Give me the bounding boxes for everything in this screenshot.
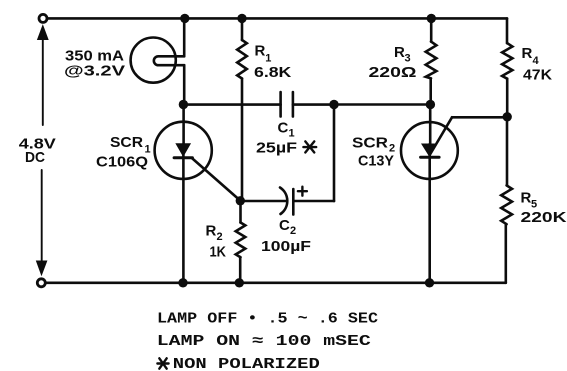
4.8V DC source up arrow xyxy=(42,37,44,125)
SCR1 anode line and cathode line xyxy=(182,105,185,145)
terminal top-left (open circle) xyxy=(39,14,47,22)
node: R4/R5/gate junction xyxy=(503,112,512,121)
svg-text:6.8K: 6.8K xyxy=(254,64,291,81)
wire R3 top lead xyxy=(430,18,433,41)
wire lamp lower lead to SCR1 anode xyxy=(183,65,186,104)
SCR2 anode/cathode line xyxy=(428,105,431,283)
svg-text:@3.2V: @3.2V xyxy=(64,63,125,80)
svg-text:C13Y: C13Y xyxy=(358,153,394,170)
wire C branch vertical (C1 node down to C2 right wire) xyxy=(333,105,336,202)
resistor R2 1K xyxy=(236,223,246,258)
svg-text:NON POLARIZED: NON POLARIZED xyxy=(173,356,320,371)
svg-text:2: 2 xyxy=(217,231,223,243)
SCR2 C13Y body circle xyxy=(401,122,458,179)
resistor R3 220ohm xyxy=(426,42,437,79)
node: R2 / bottom rail junction xyxy=(235,278,244,287)
node: middle rail / R3-SCR2 junction xyxy=(426,100,435,109)
SCR1 C106Q body circle xyxy=(155,122,212,179)
wire R5 bottom to bottom rail xyxy=(504,224,507,283)
svg-text:1: 1 xyxy=(289,128,295,140)
svg-text:47K: 47K xyxy=(523,67,552,84)
node: top rail / R1 junction xyxy=(237,14,246,23)
SCR2 cathode bar xyxy=(421,156,440,159)
SCR1 gate wire to node xyxy=(192,158,241,201)
4.8V DC source down arrow xyxy=(41,170,43,262)
wire right vertical upper (rail corner to R4) xyxy=(506,18,509,43)
wire top rail xyxy=(47,17,507,20)
node: SCR1 gate / R1-R2 / C2 junction xyxy=(236,196,245,205)
svg-text:DC: DC xyxy=(25,149,45,166)
node: SCR2 cathode / bottom rail junction xyxy=(425,278,434,287)
wire bottom rail xyxy=(46,281,506,284)
node: SCR1 cathode / bottom rail junction xyxy=(178,278,187,287)
capacitor C1 plates xyxy=(279,92,282,117)
node: top rail / lamp branch junction xyxy=(180,14,189,23)
svg-text:C: C xyxy=(278,120,289,137)
svg-text:4: 4 xyxy=(533,55,540,67)
svg-text:SCR: SCR xyxy=(352,135,388,152)
wire R3 bottom to SCR2 anode xyxy=(429,78,432,104)
wire middle rail left (to C1 left plate) xyxy=(183,103,280,106)
svg-text:100µF: 100µF xyxy=(261,238,311,255)
svg-text:R: R xyxy=(522,45,533,62)
wire C2 right lead xyxy=(293,200,334,203)
node: SCR1 anode / C1 wire junction xyxy=(179,100,188,109)
svg-text:R: R xyxy=(521,190,532,207)
terminal bottom-left (open circle) xyxy=(37,279,45,287)
wire lamp branch upper lead xyxy=(183,18,186,56)
svg-text:LAMP ON ≈ 100 mSEC: LAMP ON ≈ 100 mSEC xyxy=(157,333,371,350)
wire gate node down to R5 xyxy=(506,117,509,186)
resistor R1 6.8K xyxy=(237,40,247,79)
C2 polarity + sign xyxy=(298,187,307,196)
capacitor C2 straight plate xyxy=(292,189,295,215)
wire middle rail right (C1 right plate to node) xyxy=(293,103,334,106)
svg-text:R: R xyxy=(255,43,266,60)
wire R2 bottom lead xyxy=(239,257,242,283)
SCR2 gate wire horizontal to divider node xyxy=(452,116,507,119)
SCR1 cathode bar xyxy=(174,156,192,159)
svg-text:R: R xyxy=(394,44,405,61)
svg-text:C106Q: C106Q xyxy=(96,154,148,171)
wire C2 left lead to R1/R2 node xyxy=(240,200,286,203)
SCR2 gate wire diagonal xyxy=(430,117,452,155)
svg-text:LAMP OFF • .5 ~ .6 SEC: LAMP OFF • .5 ~ .6 SEC xyxy=(157,310,378,327)
svg-text:220Ω: 220Ω xyxy=(369,64,417,81)
svg-text:25µF: 25µF xyxy=(256,140,297,157)
node: top rail / R3 junction xyxy=(427,14,436,23)
SCR1 triangle (anode-cathode diode) xyxy=(176,144,190,156)
wire R1 bottom to node then down to R2 xyxy=(241,79,243,223)
svg-text:1: 1 xyxy=(265,53,271,65)
svg-text:R: R xyxy=(206,223,217,240)
svg-text:1K: 1K xyxy=(210,244,227,261)
node: C1/C2 right junction xyxy=(329,100,338,109)
resistor R5 220K xyxy=(501,185,512,224)
wire R1 top lead xyxy=(241,18,244,40)
note: non polarized asterisk xyxy=(157,358,168,368)
resistor R4 47K xyxy=(502,43,512,79)
svg-text:3: 3 xyxy=(405,53,411,65)
non-polarized asterisk mark xyxy=(303,141,316,152)
svg-text:2: 2 xyxy=(290,225,296,237)
lamp DS1 (350 mA @3.2V) xyxy=(131,38,176,83)
svg-text:SCR: SCR xyxy=(110,134,143,151)
SCR2 triangle xyxy=(422,144,436,155)
svg-text:C: C xyxy=(279,217,290,234)
wire R4 bottom to gate node xyxy=(506,79,509,117)
svg-text:220K: 220K xyxy=(521,209,567,226)
wire middle rail to SCR2 anode xyxy=(334,103,430,106)
capacitor C2 curved plate xyxy=(280,188,287,215)
